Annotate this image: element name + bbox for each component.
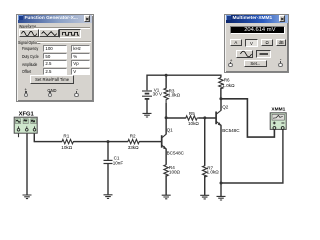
svg-text:R1: R1 bbox=[63, 133, 69, 138]
svg-text:10kΩ: 10kΩ bbox=[61, 145, 72, 150]
svg-text:1.0kΩ: 1.0kΩ bbox=[222, 83, 235, 88]
svg-text:30 V: 30 V bbox=[153, 92, 163, 97]
svg-text:33kΩ: 33kΩ bbox=[128, 145, 139, 150]
svg-text:10kΩ: 10kΩ bbox=[188, 121, 199, 126]
svg-text:100Ω: 100Ω bbox=[169, 170, 181, 175]
svg-text:XMM1: XMM1 bbox=[271, 107, 285, 113]
svg-text:Q2: Q2 bbox=[222, 105, 229, 110]
svg-text:10nF: 10nF bbox=[113, 160, 124, 165]
svg-text:R6: R6 bbox=[224, 77, 230, 82]
svg-text:R5: R5 bbox=[189, 111, 195, 116]
svg-text:BC548C: BC548C bbox=[167, 151, 185, 156]
svg-text:1.0kΩ: 1.0kΩ bbox=[168, 93, 181, 98]
svg-text:R2: R2 bbox=[130, 133, 136, 138]
svg-text:XFG1: XFG1 bbox=[19, 112, 35, 118]
svg-text:BC548C: BC548C bbox=[222, 128, 240, 133]
svg-text:Q1: Q1 bbox=[167, 128, 174, 133]
svg-text:1.0kΩ: 1.0kΩ bbox=[207, 170, 220, 175]
